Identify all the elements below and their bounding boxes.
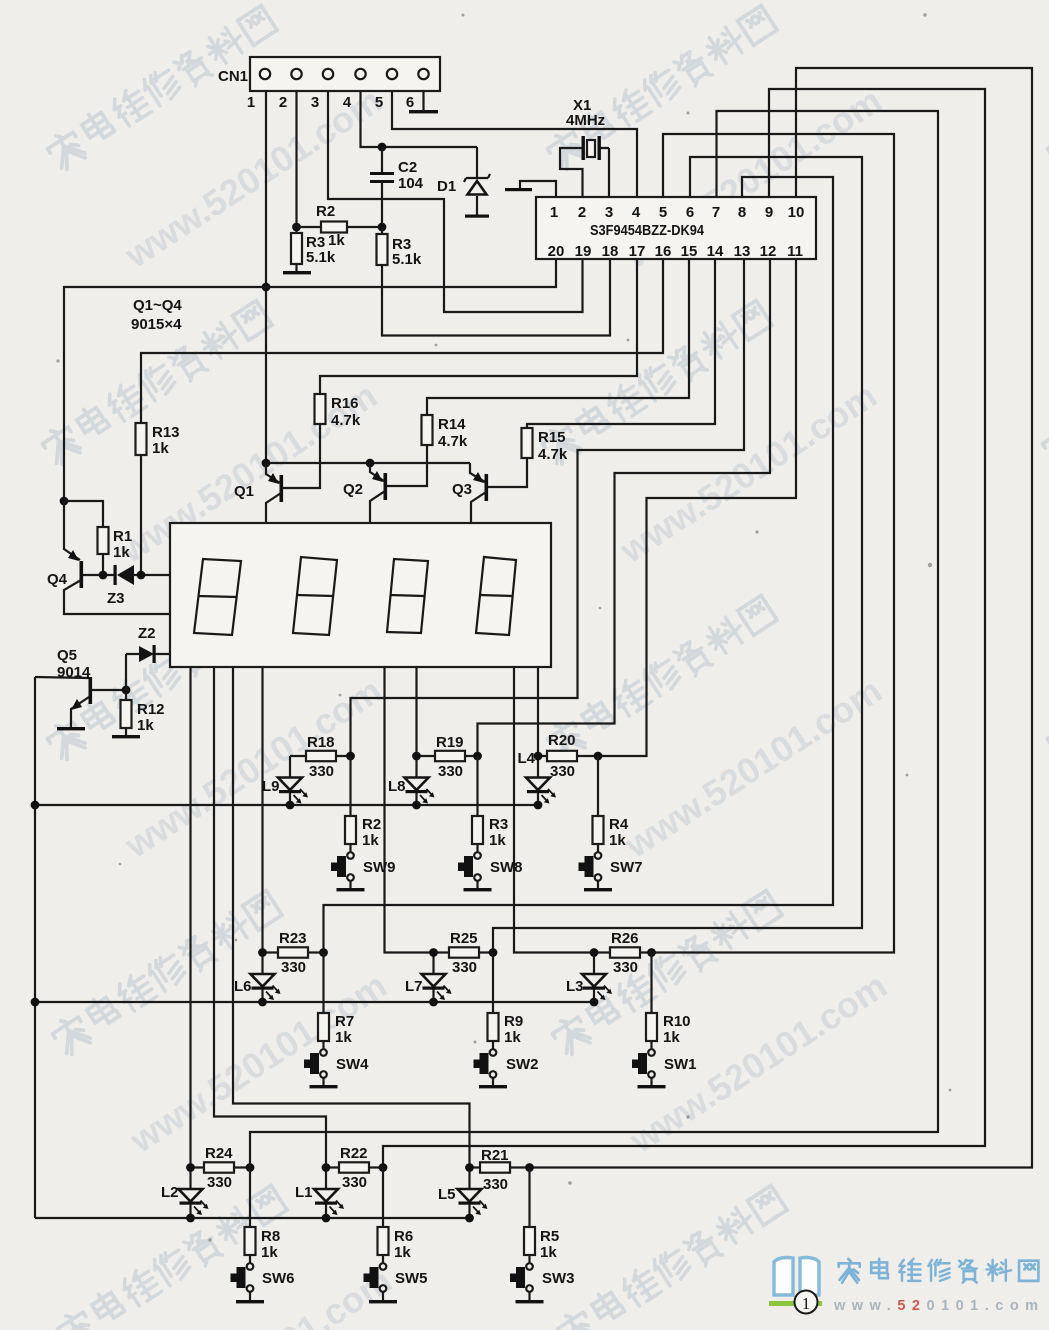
ground under SW2 xyxy=(479,1078,507,1088)
ground under SW8 xyxy=(464,881,492,891)
svg-text:R2: R2 xyxy=(316,203,335,220)
svg-text:D1: D1 xyxy=(437,178,456,195)
resistor R2 1k xyxy=(345,756,381,852)
switch SW3 xyxy=(510,1263,575,1292)
transistor Q2 (9015 PNP) xyxy=(343,463,387,523)
logo site name text xyxy=(839,1259,1039,1283)
svg-text:17: 17 xyxy=(629,243,646,260)
svg-text:R2: R2 xyxy=(362,816,381,833)
resistor R23 330 xyxy=(263,930,324,976)
svg-text:R12: R12 xyxy=(137,701,165,718)
svg-text:3: 3 xyxy=(311,94,319,111)
LED L2 xyxy=(161,1168,209,1218)
node V rail / R1 junction xyxy=(60,497,69,506)
svg-text:R18: R18 xyxy=(307,734,335,751)
svg-text:4.7k: 4.7k xyxy=(538,446,568,463)
wire IC pin17 to R16 xyxy=(320,259,637,394)
svg-text:R26: R26 xyxy=(611,930,639,947)
LED L4 xyxy=(517,750,556,806)
svg-text:330: 330 xyxy=(613,959,638,976)
LED L8 xyxy=(388,756,435,806)
switch SW5 xyxy=(364,1263,428,1292)
resistor R7 1k xyxy=(318,953,354,1050)
ground under SW7 xyxy=(584,881,612,891)
node L6 anode junction xyxy=(258,948,267,957)
resistor R9 1k xyxy=(488,953,524,1050)
row3 cathode rail xyxy=(35,1217,470,1219)
node R1/base junction xyxy=(99,571,108,580)
svg-text:R22: R22 xyxy=(340,1145,368,1162)
V+ rail y=287 (IC pin20 to left edge) xyxy=(64,259,556,501)
wire display segment pin g to L3 xyxy=(514,667,594,953)
wire CN1 pin4 to D1 top xyxy=(361,91,478,147)
svg-text:16: 16 xyxy=(655,243,672,260)
ground symbol at CN1 pin6 xyxy=(409,91,438,113)
resistor R18 330 xyxy=(290,734,351,780)
node L3 anode junction xyxy=(590,948,599,957)
svg-text:SW2: SW2 xyxy=(506,1056,539,1073)
svg-text:1k: 1k xyxy=(335,1029,352,1046)
node R19/R3 junction xyxy=(473,752,482,761)
svg-text:L1: L1 xyxy=(295,1184,313,1201)
resistor R2 1k (horizontal) xyxy=(297,203,383,249)
svg-text:330: 330 xyxy=(550,763,575,780)
svg-text:CN1: CN1 xyxy=(218,68,248,85)
node R21/R5 junction xyxy=(525,1163,534,1172)
svg-text:L7: L7 xyxy=(405,978,423,995)
svg-text:1k: 1k xyxy=(261,1244,278,1261)
node rail2/left rail xyxy=(31,998,40,1007)
svg-text:Q1~Q4: Q1~Q4 xyxy=(133,297,182,314)
wire Q1-Q3 emitter rail xyxy=(266,462,470,464)
wire IC pin7 bus to row3 R24 xyxy=(250,111,938,1168)
ground under SW9 xyxy=(337,881,365,891)
wire display segment pin dp to L4 xyxy=(537,667,539,756)
svg-text:SW8: SW8 xyxy=(490,859,523,876)
resistor R6 1k xyxy=(378,1168,414,1264)
node R25/R9 junction xyxy=(489,948,498,957)
svg-text:1k: 1k xyxy=(394,1244,411,1261)
node L1 anode junction xyxy=(322,1163,331,1172)
svg-text:5.1k: 5.1k xyxy=(392,251,422,268)
svg-text:18: 18 xyxy=(602,243,619,260)
svg-text:R3: R3 xyxy=(489,816,508,833)
resistor R4 1k xyxy=(593,756,629,852)
svg-text:1k: 1k xyxy=(504,1029,521,1046)
svg-text:R21: R21 xyxy=(481,1147,509,1164)
svg-text:14: 14 xyxy=(707,243,724,260)
svg-text:R1: R1 xyxy=(113,528,132,545)
svg-text:1k: 1k xyxy=(663,1029,680,1046)
svg-text:1k: 1k xyxy=(489,832,506,849)
svg-text:330: 330 xyxy=(342,1174,367,1191)
svg-text:330: 330 xyxy=(483,1176,508,1193)
LED L6 xyxy=(234,953,281,1003)
svg-text:7: 7 xyxy=(712,204,720,221)
node R26/R10 junction xyxy=(647,948,656,957)
svg-text:10: 10 xyxy=(788,204,805,221)
svg-text:20: 20 xyxy=(548,243,565,260)
svg-text:Z3: Z3 xyxy=(107,590,125,607)
svg-text:SW7: SW7 xyxy=(610,859,643,876)
svg-text:R10: R10 xyxy=(663,1013,691,1030)
svg-text:L9: L9 xyxy=(262,778,280,795)
wire CN1 pin2 down xyxy=(295,91,297,233)
svg-text:S3F9454BZZ-DK94: S3F9454BZZ-DK94 xyxy=(590,222,705,239)
node L7 anode junction xyxy=(429,948,438,957)
svg-text:R20: R20 xyxy=(548,732,576,749)
wire IC pin16 to R13 xyxy=(141,259,663,423)
node L9 cathode on rail1 xyxy=(286,801,295,810)
svg-text:R25: R25 xyxy=(450,930,478,947)
wire CN1 pin1 column to Q1 emitter rail xyxy=(265,91,267,463)
resistor R25 330 xyxy=(434,930,494,976)
transistor Q3 (9015 PNP) xyxy=(452,463,488,523)
node R23/R7 junction xyxy=(319,948,328,957)
ground symbol at IC pin1 xyxy=(505,181,556,197)
svg-text:R13: R13 xyxy=(152,424,180,441)
wire CN1 pin5 to IC pin4 xyxy=(392,91,637,197)
svg-text:12: 12 xyxy=(760,243,777,260)
resistor R24 330 xyxy=(191,1145,251,1191)
node rail1/left rail xyxy=(31,801,40,810)
wire IC pin10 bus to row3 R21 xyxy=(530,68,1033,1168)
svg-text:1: 1 xyxy=(802,1294,811,1313)
svg-text:330: 330 xyxy=(309,763,334,780)
node R2 left junction xyxy=(292,223,301,232)
node junction pin1/V rail xyxy=(262,283,271,292)
capacitor C2 104 xyxy=(370,147,424,227)
resistor R5 1k xyxy=(524,1168,559,1264)
wire display segment pin d to L6 xyxy=(261,667,263,953)
wire IC pin12 to row1 SW8 column xyxy=(478,259,771,756)
svg-text:1k: 1k xyxy=(113,544,130,561)
node R24/R8 junction xyxy=(246,1163,255,1172)
wire display segment pin b to L1 xyxy=(214,667,326,1168)
svg-text:L8: L8 xyxy=(388,778,406,795)
ground under SW5 xyxy=(369,1292,397,1303)
node Q5 base / R12 junction xyxy=(122,686,131,695)
node L2 cathode on rail3 xyxy=(186,1214,195,1223)
svg-text:1k: 1k xyxy=(609,832,626,849)
svg-text:Q3: Q3 xyxy=(452,481,472,498)
resistor R19 330 xyxy=(417,734,478,780)
LED L7 xyxy=(405,953,452,1003)
svg-text:1k: 1k xyxy=(137,717,154,734)
resistor R10 1k xyxy=(646,953,691,1050)
wire IC pin5 bus to row2 R26 xyxy=(652,134,895,953)
node R22/R6 junction xyxy=(379,1163,388,1172)
svg-text:R6: R6 xyxy=(394,1228,413,1245)
svg-text:L4: L4 xyxy=(517,750,535,767)
svg-text:3: 3 xyxy=(605,204,613,221)
svg-text:Q5: Q5 xyxy=(57,647,77,664)
svg-text:SW1: SW1 xyxy=(664,1056,697,1073)
diode D1 (zener) xyxy=(437,147,490,218)
wire display segment pin c to L5 xyxy=(233,667,470,1168)
svg-text:19: 19 xyxy=(575,243,592,260)
svg-text:1k: 1k xyxy=(328,232,345,249)
wire CN1 pin3 to IC pin19 xyxy=(328,91,583,312)
svg-text:2: 2 xyxy=(279,94,287,111)
wire IC pin15 to R14 xyxy=(427,259,689,415)
node L4 cathode on rail1 xyxy=(534,801,543,810)
scan speckles xyxy=(56,13,951,1241)
svg-text:R9: R9 xyxy=(504,1013,523,1030)
node L7 cathode on rail2 xyxy=(429,998,438,1007)
svg-text:L6: L6 xyxy=(234,978,252,995)
svg-text:www.520101.com: www.520101.com xyxy=(833,1298,1045,1314)
svg-text:R8: R8 xyxy=(261,1228,280,1245)
resistor R21 330 xyxy=(470,1147,530,1193)
resistor R15 4.7k xyxy=(488,428,568,487)
ground under R3 left xyxy=(283,271,311,274)
wire Q4 base line xyxy=(83,574,115,576)
wire IC pin6 bus to row2 R25 xyxy=(493,157,862,953)
svg-text:SW6: SW6 xyxy=(262,1270,295,1287)
svg-text:1: 1 xyxy=(247,94,255,111)
display module (4-digit 7-seg) xyxy=(170,523,551,667)
svg-text:2: 2 xyxy=(578,204,586,221)
resistor R26 330 xyxy=(594,930,652,976)
wire display segment pin a down to L2 xyxy=(189,667,191,1168)
svg-text:4MHz: 4MHz xyxy=(566,112,605,129)
svg-text:L5: L5 xyxy=(438,1186,456,1203)
logo book icon xyxy=(774,1258,819,1296)
svg-text:4: 4 xyxy=(343,94,352,111)
svg-text:104: 104 xyxy=(398,175,424,192)
svg-text:4.7k: 4.7k xyxy=(331,412,361,429)
resistor R8 1k xyxy=(245,1168,281,1264)
svg-text:6: 6 xyxy=(686,204,694,221)
svg-text:SW5: SW5 xyxy=(395,1270,428,1287)
svg-text:4: 4 xyxy=(632,204,641,221)
ground under SW3 xyxy=(516,1292,544,1303)
diode Z3 xyxy=(107,565,170,607)
svg-text:R19: R19 xyxy=(436,734,464,751)
ground under SW1 xyxy=(638,1078,666,1088)
svg-text:15: 15 xyxy=(681,243,698,260)
node L1 cathode on rail3 xyxy=(322,1214,331,1223)
wire IC pin13 to row1 SW9 column xyxy=(351,259,745,756)
node L2 anode junction xyxy=(186,1163,195,1172)
svg-text:R4: R4 xyxy=(609,816,629,833)
node Z3/R13 junction xyxy=(137,571,146,580)
switch SW2 xyxy=(474,1049,539,1078)
svg-text:R7: R7 xyxy=(335,1013,354,1030)
svg-text:SW4: SW4 xyxy=(336,1056,369,1073)
svg-text:5.1k: 5.1k xyxy=(306,249,336,266)
logo green underline xyxy=(769,1301,822,1306)
switch SW6 xyxy=(231,1263,295,1292)
svg-text:Q2: Q2 xyxy=(343,481,363,498)
svg-text:Z2: Z2 xyxy=(138,625,156,642)
resistor R12 1k xyxy=(112,690,165,738)
LED L5 xyxy=(438,1168,488,1218)
switch SW8 xyxy=(458,852,523,881)
crystal X1 4MHz xyxy=(560,97,609,197)
svg-text:R15: R15 xyxy=(538,429,566,446)
node L5 anode junction xyxy=(465,1163,474,1172)
switch SW1 xyxy=(632,1049,697,1078)
resistor R3 1k (row1) xyxy=(472,756,508,852)
svg-text:8: 8 xyxy=(738,204,746,221)
node C2 top junction xyxy=(378,143,387,152)
svg-text:1: 1 xyxy=(550,204,558,221)
wire Z2 to Q5 base xyxy=(125,654,127,690)
wire IC pin8 bus to row2 R23 xyxy=(324,177,834,953)
svg-text:R24: R24 xyxy=(205,1145,233,1162)
transistor Q4 (9015 PNP) xyxy=(47,501,170,614)
node L3 cathode on rail2 xyxy=(590,998,599,1007)
row2 cathode rail xyxy=(35,1001,594,1003)
resistor R22 330 xyxy=(326,1145,383,1191)
row1 cathode rail xyxy=(35,804,539,806)
ground under SW4 xyxy=(310,1078,338,1088)
transistor Q5 (9014 NPN) xyxy=(35,647,126,730)
svg-text:9015×4: 9015×4 xyxy=(131,316,182,333)
svg-text:SW9: SW9 xyxy=(363,859,396,876)
svg-text:330: 330 xyxy=(207,1174,232,1191)
resistor R3 5.1k (left) xyxy=(291,233,336,272)
switch SW7 xyxy=(579,852,643,881)
node R20/R4 junction xyxy=(594,752,603,761)
node R18/R2 junction xyxy=(346,752,355,761)
resistor R14 4.7k xyxy=(387,415,468,486)
transistor Q1 (9015 PNP) xyxy=(234,463,283,523)
wire IC pin9 bus to row3 R22 xyxy=(383,89,985,1168)
logo circled 1 xyxy=(795,1291,818,1314)
svg-text:L3: L3 xyxy=(566,978,584,995)
svg-text:9: 9 xyxy=(765,204,773,221)
svg-text:330: 330 xyxy=(281,959,306,976)
connector CN1 xyxy=(218,57,440,111)
svg-text:1k: 1k xyxy=(152,440,169,457)
resistor R20 330 xyxy=(538,732,598,780)
svg-text:SW3: SW3 xyxy=(542,1270,575,1287)
resistor R3 5.1k (right) / wire to IC pin18 xyxy=(377,227,611,336)
node L8 anode junction xyxy=(412,752,421,761)
svg-text:5: 5 xyxy=(375,94,383,111)
resistor R1 1k xyxy=(64,501,132,575)
svg-text:R16: R16 xyxy=(331,395,359,412)
svg-text:13: 13 xyxy=(734,243,751,260)
resistor R16 4.7k xyxy=(283,394,361,488)
svg-text:330: 330 xyxy=(438,763,463,780)
svg-text:5: 5 xyxy=(659,204,667,221)
svg-text:330: 330 xyxy=(452,959,477,976)
svg-text:R23: R23 xyxy=(279,930,307,947)
svg-text:R5: R5 xyxy=(540,1228,559,1245)
node L6 cathode on rail2 xyxy=(258,998,267,1007)
diode Z2 xyxy=(126,625,170,663)
node L5 cathode on rail3 xyxy=(465,1214,474,1223)
svg-text:6: 6 xyxy=(406,94,414,111)
svg-text:1k: 1k xyxy=(362,832,379,849)
LED L3 xyxy=(566,953,612,1003)
switch SW9 xyxy=(331,852,396,881)
LED L1 xyxy=(295,1168,344,1218)
svg-text:1k: 1k xyxy=(540,1244,557,1261)
wire display segment pin f to L8 xyxy=(415,667,417,756)
node Q2 emitter junction xyxy=(366,459,375,468)
svg-text:Q4: Q4 xyxy=(47,571,68,588)
ground under SW6 xyxy=(236,1292,264,1303)
IC U1 S3F9454BZZ-DK94 xyxy=(536,197,816,260)
node C2/R2/R3 junction xyxy=(378,223,387,232)
node L4 anode junction xyxy=(534,752,543,761)
node Q1 emitter junction xyxy=(262,459,271,468)
svg-text:C2: C2 xyxy=(398,159,417,176)
wire display segment pin e to L7 xyxy=(385,667,434,953)
svg-text:4.7k: 4.7k xyxy=(438,433,468,450)
svg-text:L2: L2 xyxy=(161,1184,179,1201)
svg-text:R14: R14 xyxy=(438,416,466,433)
switch SW4 xyxy=(304,1049,369,1078)
LED L9 xyxy=(262,756,308,806)
node L8 cathode on rail1 xyxy=(412,801,421,810)
wire IC pin14 to R15 xyxy=(527,259,715,428)
resistor R13 1k xyxy=(136,423,180,575)
svg-text:11: 11 xyxy=(787,243,803,260)
wire IC pin11 to row1 SW7 column xyxy=(598,259,796,756)
svg-text:Q1: Q1 xyxy=(234,483,254,500)
wire left LED-cathode rail (Q5 collector) xyxy=(34,677,36,1218)
